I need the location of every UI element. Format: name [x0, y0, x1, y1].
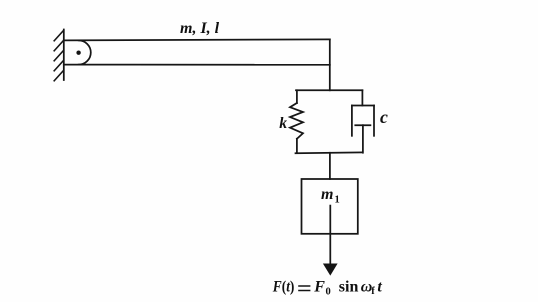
pivot dot [76, 51, 80, 55]
svg-text:F(t): F(t) [272, 278, 294, 295]
damper cylinder right wall [373, 106, 375, 136]
damper top stub [361, 90, 363, 105]
bottom bracket [296, 151, 363, 154]
svg-text:k: k [279, 115, 287, 132]
damper piston plate [355, 124, 370, 126]
equals sign [298, 286, 310, 291]
wall [63, 30, 65, 81]
top bracket [296, 89, 362, 91]
bar right end and rod to bracket [329, 39, 331, 90]
bar top edge [64, 39, 330, 40]
svg-text:sin: sin [339, 278, 359, 295]
spring top stub [296, 90, 298, 103]
rod bracket to mass [329, 153, 331, 179]
force line [329, 206, 331, 265]
svg-text:m, I, l: m, I, l [180, 20, 220, 37]
damper piston rod [362, 125, 364, 153]
spring k zigzag [290, 103, 303, 139]
bar bottom edge [64, 64, 330, 66]
mass m1 box [302, 179, 358, 234]
svg-text:c: c [380, 107, 388, 127]
wall hatching [54, 31, 63, 81]
spring bottom stub [296, 139, 298, 153]
svg-text:0: 0 [326, 286, 331, 297]
svg-text:m: m [321, 186, 333, 203]
svg-text:F: F [313, 278, 325, 295]
damper cylinder left wall [351, 106, 353, 136]
svg-text:f: f [371, 286, 375, 297]
pivot bearing arc [79, 40, 91, 64]
svg-text:1: 1 [335, 195, 340, 206]
svg-text:t: t [377, 278, 382, 295]
force arrowhead [323, 264, 338, 276]
damper cylinder top [352, 105, 374, 107]
